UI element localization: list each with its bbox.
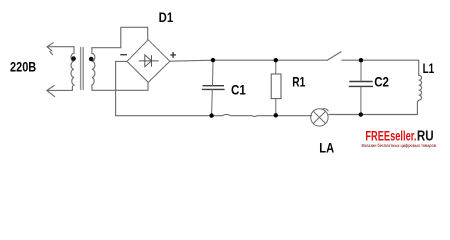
svg-text:L1: L1 <box>423 60 435 76</box>
transformer T1 primary winding <box>71 47 74 91</box>
svg-text:Магазин бесплатных цифровых то: Магазин бесплатных цифровых товаров <box>362 142 437 148</box>
wire C1 leads <box>212 60 213 115</box>
wire mains top lead <box>47 46 74 48</box>
capacitor C2 <box>349 82 373 87</box>
capacitor C1 <box>202 86 225 90</box>
svg-text:220В: 220В <box>10 58 36 74</box>
junction node C1 bottom <box>209 113 213 117</box>
transformer T1 secondary winding <box>92 48 95 91</box>
wire C2 leads <box>360 60 362 114</box>
wire mains bottom lead <box>47 89 72 91</box>
bottom rail left segment <box>116 114 312 116</box>
svg-text:C2: C2 <box>374 74 389 90</box>
diode inside D1 <box>139 55 159 67</box>
mains top arrow <box>47 43 53 55</box>
junction node C1 top <box>211 58 215 62</box>
mains bottom arrow <box>47 86 55 97</box>
svg-text:FREEseller.: FREEseller. <box>365 128 416 143</box>
minus sign <box>120 54 127 56</box>
inductor L1 coil <box>417 75 421 114</box>
wire secondary top to bridge <box>92 27 148 47</box>
polarity dot primary <box>71 56 76 61</box>
wire R1 leads <box>275 60 277 115</box>
junction node R1 bottom <box>274 113 278 117</box>
transformer core <box>81 48 84 90</box>
bridge rectifier D1 diamond <box>127 40 170 83</box>
svg-text:LA: LA <box>319 140 334 156</box>
wire bridge plus output <box>170 60 327 61</box>
junction node R1 top <box>274 58 278 62</box>
svg-text:C1: C1 <box>231 81 246 97</box>
svg-text:R1: R1 <box>292 74 305 90</box>
wire secondary bottom to bridge <box>92 83 148 91</box>
bottom rail right segment <box>329 114 418 116</box>
switch SA1 <box>327 52 341 61</box>
junction node C2 top <box>359 58 363 62</box>
resistor R1 <box>271 74 281 99</box>
plus sign <box>170 52 176 58</box>
wire right edge down to L1 <box>418 60 420 75</box>
junction node C2 bottom <box>359 112 363 116</box>
lamp LA <box>311 109 329 126</box>
svg-text:D1: D1 <box>159 9 174 25</box>
top rail after switch <box>342 59 419 61</box>
wire bridge minus to bottom rail <box>116 61 127 115</box>
polarity dot secondary <box>89 57 94 62</box>
